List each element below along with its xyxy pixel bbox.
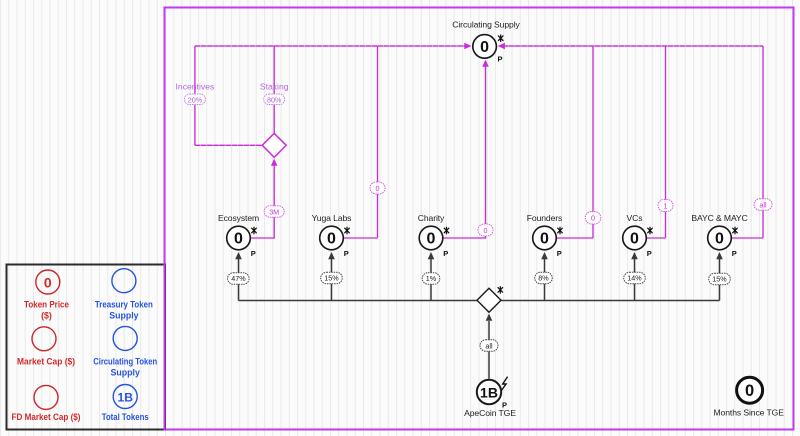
wire ecosystem to gate	[251, 164, 274, 238]
node Charity	[418, 213, 449, 258]
svg-text:Supply: Supply	[111, 368, 140, 378]
svg-text:Circulating Token: Circulating Token	[93, 357, 157, 367]
pill 14%	[624, 272, 646, 284]
svg-text:Staking: Staking	[260, 82, 289, 92]
svg-text:3M: 3M	[269, 208, 279, 217]
svg-text:80%: 80%	[267, 96, 282, 105]
arrow into VCs	[631, 252, 638, 259]
legend total tokens	[113, 385, 137, 409]
wire founders horizontal	[557, 237, 593, 239]
pill 15% (yuga)	[321, 272, 343, 284]
pill 0 (charity)	[478, 224, 493, 236]
arrow into staking gate bottom	[271, 159, 278, 166]
pill 20%	[184, 94, 205, 105]
svg-text:Token Price: Token Price	[24, 300, 69, 310]
wire bayc horizontal	[732, 237, 763, 239]
riser founders	[544, 258, 546, 301]
svg-text:P: P	[443, 249, 448, 258]
node VCs	[623, 213, 653, 258]
svg-text:1B: 1B	[118, 391, 134, 405]
border overlay on legend edge	[164, 7, 166, 431]
svg-text:P: P	[647, 249, 652, 258]
legend circulating token supply	[113, 326, 137, 350]
wire vcs vertical	[665, 46, 667, 238]
svg-text:P: P	[497, 55, 502, 64]
arrow into Circulating Supply left	[464, 43, 471, 50]
pill 1%	[422, 273, 440, 285]
svg-text:Months Since TGE: Months Since TGE	[714, 408, 785, 418]
svg-text:1: 1	[664, 202, 668, 211]
svg-text:BAYC & MAYC: BAYC & MAYC	[691, 213, 747, 223]
pill 1 (vcs)	[658, 200, 673, 212]
svg-text:0: 0	[327, 231, 336, 248]
svg-text:1%: 1%	[426, 274, 437, 283]
svg-text:all: all	[759, 201, 767, 210]
arrowheads magenta	[271, 43, 505, 166]
svg-text:0: 0	[376, 184, 380, 193]
legend fd market cap	[34, 385, 58, 409]
node Circulating Supply	[452, 20, 520, 64]
wire charity	[443, 66, 485, 238]
svg-text:all: all	[485, 342, 493, 351]
wire left vertical (incentives)	[194, 46, 196, 145]
svg-text:0: 0	[484, 226, 488, 235]
svg-text:FD Market Cap ($): FD Market Cap ($)	[12, 412, 81, 422]
svg-text:Treasury Token: Treasury Token	[95, 300, 153, 310]
staking gate diamond	[262, 133, 286, 157]
svg-text:0: 0	[630, 231, 639, 248]
arrow into Ecosystem	[235, 252, 242, 259]
wire bottom horizontal left of gate	[239, 300, 478, 302]
arrow into Founders	[541, 252, 548, 259]
arrow into Circulating Supply right	[498, 43, 505, 50]
svg-text:0: 0	[591, 214, 595, 223]
pill 0 (founders)	[585, 212, 601, 225]
arrow into Charity	[428, 252, 435, 259]
svg-text:P: P	[344, 249, 349, 258]
riser ecosystem	[238, 258, 240, 301]
svg-text:47%: 47%	[231, 274, 246, 283]
wire vcs horizontal	[647, 237, 666, 239]
svg-text:Charity: Charity	[418, 213, 445, 223]
svg-text:15%: 15%	[712, 275, 727, 284]
svg-text:0: 0	[427, 231, 436, 248]
pill 0 (yuga)	[370, 182, 385, 194]
wire bayc vertical	[762, 46, 764, 238]
svg-text:Incentives: Incentives	[176, 82, 215, 92]
svg-text:0: 0	[234, 231, 243, 248]
node Ecosystem	[218, 213, 259, 258]
wire top-left horizontal	[195, 45, 465, 47]
svg-text:Ecosystem: Ecosystem	[218, 213, 259, 223]
wire staking vertical	[273, 46, 275, 133]
svg-text:0: 0	[715, 231, 724, 248]
wire TGE to gate	[488, 321, 490, 379]
pill all (tge)	[480, 340, 498, 352]
pill 47%	[228, 273, 250, 285]
node Months Since TGE	[714, 377, 785, 417]
svg-text:P: P	[557, 249, 562, 258]
svg-text:1B: 1B	[480, 385, 498, 401]
svg-text:VCs: VCs	[627, 213, 643, 223]
legend treasury token supply	[112, 269, 136, 293]
svg-text:P: P	[251, 249, 256, 258]
node BAYC & MAYC	[691, 213, 747, 258]
legend box	[7, 265, 166, 430]
pill 3M	[264, 206, 284, 218]
svg-text:0: 0	[540, 231, 549, 248]
wire bottom horizontal right of gate	[501, 300, 720, 302]
lightning bolt	[501, 377, 508, 391]
node Yuga Labs	[312, 213, 352, 258]
svg-text:20%: 20%	[188, 96, 203, 105]
riser vcs	[634, 258, 636, 301]
star of gate	[498, 287, 503, 293]
wire incentives horizontal into diamond	[195, 144, 262, 146]
svg-text:14%: 14%	[627, 274, 642, 283]
legend token price	[36, 270, 60, 294]
riser charity	[430, 258, 432, 301]
distribution gate diamond	[477, 287, 503, 313]
pill 80%	[264, 94, 285, 105]
svg-text:0: 0	[745, 382, 754, 400]
wire top-right horizontal	[503, 45, 763, 47]
svg-text:P: P	[732, 249, 737, 258]
arrow into TGE gate	[486, 314, 493, 321]
wire yuga vertical	[377, 46, 379, 238]
svg-text:Total Tokens: Total Tokens	[102, 412, 149, 422]
riser yuga	[331, 258, 333, 301]
node Founders	[527, 213, 563, 258]
node ApeCoin TGE	[464, 377, 516, 418]
svg-text:ApeCoin TGE: ApeCoin TGE	[464, 408, 516, 418]
legend market cap	[32, 327, 56, 351]
riser bayc	[719, 258, 721, 301]
wire underlay (light)	[165, 8, 794, 430]
wire founders vertical	[592, 46, 594, 238]
wire yuga horizontal	[344, 237, 378, 239]
diagram border	[165, 7, 794, 431]
svg-text:Founders: Founders	[527, 213, 563, 223]
svg-text:Market Cap ($): Market Cap ($)	[17, 357, 75, 367]
pill all (bayc)	[754, 199, 772, 211]
svg-text:Circulating Supply: Circulating Supply	[452, 20, 520, 30]
pill 8%	[535, 272, 553, 284]
svg-text:15%: 15%	[324, 274, 339, 283]
svg-text:Yuga Labs: Yuga Labs	[312, 213, 352, 223]
pill 15% (bayc)	[709, 273, 731, 285]
svg-text:8%: 8%	[538, 274, 549, 283]
arrowheads black	[235, 252, 723, 321]
svg-text:0: 0	[44, 275, 52, 291]
arrow into Circulating Supply bottom	[482, 60, 489, 67]
svg-text:Supply: Supply	[109, 311, 138, 321]
svg-text:0: 0	[480, 39, 489, 56]
arrow into Yuga Labs	[328, 252, 335, 259]
arrow into BAYC	[716, 252, 723, 259]
svg-text:($): ($)	[41, 311, 52, 321]
